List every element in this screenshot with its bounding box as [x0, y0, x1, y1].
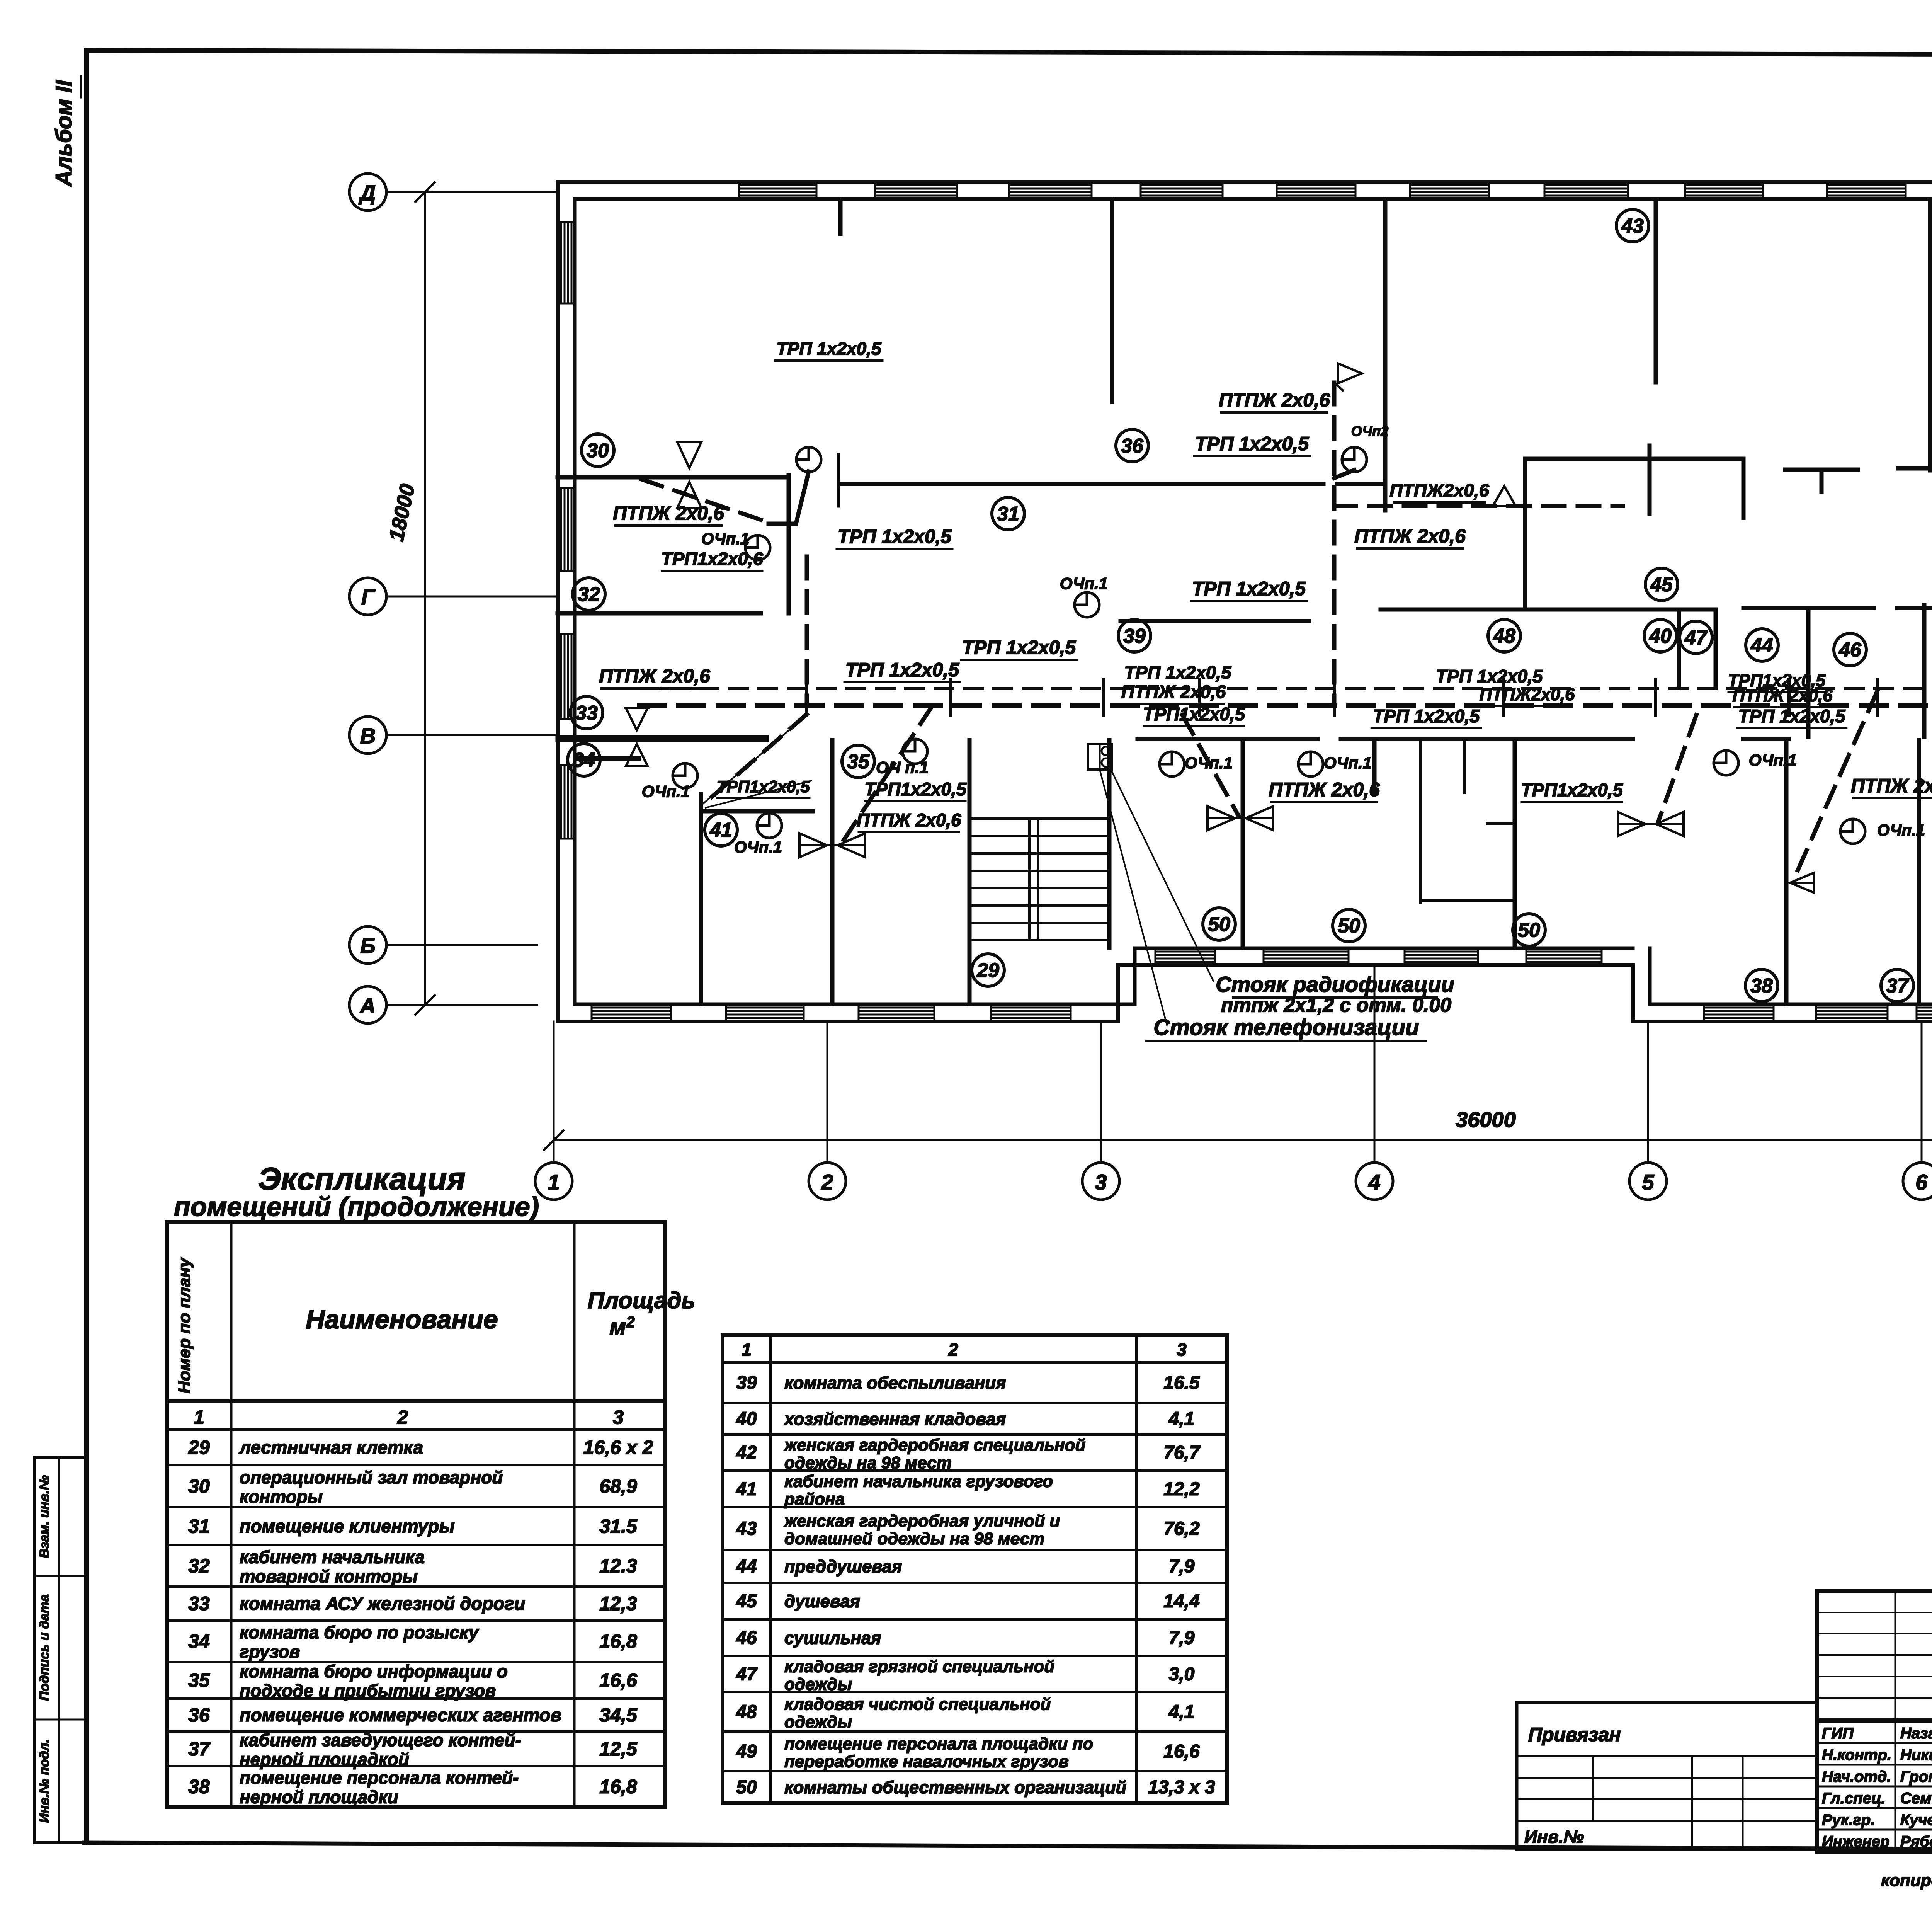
svg-text:16,8: 16,8 [599, 1631, 637, 1652]
svg-text:48: 48 [736, 1702, 757, 1722]
svg-text:ОЧп.1: ОЧп.1 [642, 782, 690, 800]
svg-text:помещений (продолжение): помещений (продолжение) [174, 1192, 539, 1222]
svg-text:грузов: грузов [240, 1642, 300, 1662]
svg-text:Н.контр.: Н.контр. [1822, 1747, 1891, 1764]
wire branch room34 [706, 714, 807, 802]
walls rooms 32-33-34 left [558, 613, 767, 737]
clock symbol [1342, 447, 1367, 472]
wire branch room50a valve [1182, 715, 1238, 815]
svg-text:ОЧп.1: ОЧп.1 [1749, 751, 1797, 769]
svg-text:ТРП1х2х0,5: ТРП1х2х0,5 [716, 778, 810, 796]
svg-text:Инв.№ подл.: Инв.№ подл. [37, 1739, 52, 1823]
wire label ТРП1х2х0,5 [1143, 704, 1245, 726]
wire label ТРП1х2х0,6 [661, 548, 764, 571]
wire label ТРП 1х2х0,5 [1194, 433, 1310, 456]
axis Г [349, 578, 558, 615]
svg-text:ПТПЖ 2х0,6: ПТПЖ 2х0,6 [599, 665, 711, 687]
wire label ТРП 1х2х0,5 [1372, 706, 1481, 728]
clock symbol [1075, 592, 1099, 617]
wire label ПТПЖ 2х0,6 [1851, 775, 1932, 798]
svg-text:2: 2 [821, 1170, 833, 1194]
wire label ТРП 1х2х0,5 [961, 637, 1077, 660]
wire label ТРП1х2х0,5 [1521, 780, 1623, 802]
svg-text:50: 50 [736, 1777, 757, 1798]
svg-text:ОЧ п.1: ОЧ п.1 [876, 758, 929, 776]
svg-text:кладовая грязной специальной: кладовая грязной специальной [784, 1657, 1054, 1676]
wire branch room35 valve [844, 706, 932, 840]
room circle 50 [1333, 909, 1365, 942]
corridor lower wall with rooms 34-41-35-50 [558, 737, 1932, 1004]
svg-text:36: 36 [1121, 435, 1144, 457]
svg-text:3: 3 [1177, 1340, 1187, 1360]
svg-text:37: 37 [1886, 975, 1909, 997]
svg-text:ТРП 1х2х0,5: ТРП 1х2х0,5 [1195, 433, 1310, 455]
riser symbol [1088, 744, 1112, 770]
svg-text:29: 29 [188, 1437, 210, 1458]
svg-text:Инженер: Инженер [1822, 1833, 1889, 1850]
svg-text:45: 45 [736, 1591, 757, 1612]
svg-text:49: 49 [736, 1742, 757, 1762]
svg-text:44: 44 [736, 1556, 757, 1577]
svg-text:Никитина: Никитина [1900, 1747, 1932, 1764]
svg-text:76,7: 76,7 [1163, 1443, 1201, 1463]
svg-text:12.3: 12.3 [599, 1555, 637, 1577]
axis 4 [1356, 965, 1393, 1200]
corridor wire TRP main [641, 687, 1932, 690]
building outer wall bottom with step [558, 948, 1932, 1021]
axis 6 [1903, 1021, 1932, 1200]
svg-text:товарной конторы: товарной конторы [240, 1566, 418, 1587]
windows top wall [739, 182, 1906, 199]
room circle 40 [1644, 620, 1677, 652]
svg-text:кладовая чистой специальной: кладовая чистой специальной [784, 1695, 1051, 1714]
svg-text:нерной площадкой: нерной площадкой [240, 1749, 409, 1769]
room circle 43 [1616, 209, 1649, 242]
room circle 48 [1488, 620, 1520, 652]
wire label ПТПЖ 2х0,6 [1732, 686, 1833, 707]
svg-text:комната обеспыливания: комната обеспыливания [784, 1373, 1006, 1393]
svg-text:ГИП: ГИП [1822, 1725, 1854, 1742]
room 39 top wall [1121, 619, 1309, 623]
svg-text:18000: 18000 [384, 482, 419, 543]
svg-text:района: района [784, 1490, 845, 1509]
svg-text:ПТПЖ 2х0,6: ПТПЖ 2х0,6 [857, 810, 961, 830]
wire branch to arrow room38 [1793, 691, 1877, 881]
room circle 37 [1881, 969, 1913, 1002]
svg-text:36000: 36000 [1456, 1107, 1516, 1132]
svg-text:Д: Д [359, 180, 376, 205]
wire label ПТПЖ2х0,6 [1480, 684, 1575, 706]
svg-text:Б: Б [360, 933, 376, 958]
svg-text:ПТПЖ 2х0,6: ПТПЖ 2х0,6 [1121, 681, 1226, 702]
wire label ТРП 1х2х0,5 [1737, 706, 1847, 728]
room circle 41 [705, 814, 737, 846]
svg-text:6: 6 [1915, 1170, 1928, 1194]
explication table 39-50 [723, 1335, 1227, 1803]
explication table 29-38 [167, 1222, 695, 1807]
svg-text:комнаты общественных организац: комнаты общественных организаций [784, 1777, 1126, 1797]
walls rooms 30-31-36 [558, 454, 1385, 613]
wire label ОЧп.1 [701, 529, 749, 548]
axis А [349, 986, 537, 1023]
privyazan box [1517, 1702, 1817, 1849]
valve symbol room50b [1618, 812, 1684, 836]
svg-text:32: 32 [578, 583, 600, 606]
svg-text:43: 43 [1621, 215, 1644, 237]
valve symbol room33 [577, 708, 648, 766]
clock symbol [1160, 752, 1184, 776]
svg-text:ТРП 1х2х0,5: ТРП 1х2х0,5 [1373, 706, 1480, 726]
clock symbol [745, 535, 770, 560]
svg-text:Наименование: Наименование [306, 1305, 498, 1334]
clock symbol [1298, 752, 1323, 776]
svg-text:Громов: Громов [1900, 1768, 1932, 1785]
wire label ТРП1х2х0,5 [864, 779, 967, 801]
svg-text:3: 3 [1095, 1170, 1107, 1194]
wire label ТРП 1х2х0,5 [1191, 578, 1307, 601]
svg-text:5: 5 [1642, 1170, 1654, 1194]
room circle 50 [1513, 914, 1545, 946]
svg-text:1: 1 [742, 1340, 752, 1360]
svg-text:ОЧп2: ОЧп2 [1351, 423, 1388, 439]
svg-text:47: 47 [736, 1664, 758, 1685]
room circle 44 [1746, 629, 1778, 661]
svg-text:16,6: 16,6 [1163, 1742, 1200, 1762]
svg-text:Семчукова: Семчукова [1900, 1790, 1932, 1807]
wire label ОЧ п.1 [876, 758, 929, 776]
axis 3 [1082, 1021, 1119, 1200]
left dimension line 18000 [384, 182, 435, 1015]
svg-text:ОЧп.1: ОЧп.1 [1324, 754, 1372, 772]
svg-text:1: 1 [548, 1170, 560, 1194]
svg-text:Площадь: Площадь [588, 1287, 696, 1313]
wire label ОЧп2 [1351, 423, 1388, 439]
svg-text:40: 40 [736, 1409, 757, 1429]
room circle 50 [1203, 908, 1235, 940]
clock symbol [796, 447, 821, 472]
svg-text:16,6: 16,6 [599, 1670, 638, 1691]
explication heading [174, 1161, 539, 1222]
svg-text:ПТПЖ2х0,6: ПТПЖ2х0,6 [1389, 480, 1489, 501]
svg-text:сушильная: сушильная [784, 1628, 881, 1648]
svg-text:Номер по плану: Номер по плану [175, 1257, 194, 1393]
clock symbol [673, 763, 697, 788]
wire label ТРП 1х2х0,5 [1124, 662, 1232, 683]
valve symbol room50a [1207, 806, 1273, 830]
svg-text:2: 2 [948, 1340, 958, 1360]
svg-text:кабинет заведующего контей-: кабинет заведующего контей- [240, 1730, 521, 1750]
svg-text:ПТПЖ2х0,6: ПТПЖ2х0,6 [1480, 684, 1575, 704]
room circle 45 [1645, 568, 1678, 601]
svg-text:м2: м2 [609, 1314, 634, 1339]
svg-text:В: В [360, 724, 376, 748]
svg-text:1: 1 [194, 1406, 204, 1428]
wire label ПТПЖ 2х0,6 [1219, 389, 1330, 412]
svg-text:хозяйственная кладовая: хозяйственная кладовая [784, 1409, 1006, 1429]
wire label ОЧп.1 [642, 782, 690, 800]
svg-text:3,0: 3,0 [1169, 1664, 1195, 1685]
windows bottom wall [592, 948, 1932, 1021]
svg-text:30: 30 [188, 1476, 210, 1497]
clock symbol [757, 813, 782, 838]
footer notes [1881, 1856, 1932, 1895]
room circle 38 [1745, 969, 1778, 1002]
wire label ОЧп.1 [1877, 821, 1925, 839]
valve symbol room30 [677, 442, 701, 508]
clock symbol [1840, 819, 1865, 844]
svg-text:Рук.гр.: Рук.гр. [1822, 1811, 1875, 1828]
svg-text:14,4: 14,4 [1163, 1591, 1199, 1612]
room circle 47 [1680, 621, 1712, 654]
svg-text:46: 46 [1838, 639, 1862, 661]
svg-text:ТРП 1х2х0,5: ТРП 1х2х0,5 [1124, 662, 1232, 683]
wire label ТРП1х2х0,5 [716, 778, 810, 798]
svg-text:ТРП 1х2х0,5: ТРП 1х2х0,5 [845, 659, 960, 681]
wire label ПТПЖ2х0,6 [1389, 480, 1489, 502]
wire vertical riser room36 [1332, 383, 1337, 703]
svg-text:ТРП 1х2х0,5: ТРП 1х2х0,5 [777, 339, 882, 359]
room circle 35 [842, 745, 874, 778]
svg-text:68,9: 68,9 [599, 1476, 637, 1497]
svg-text:38: 38 [1750, 975, 1773, 997]
svg-text:ТРП 1х2х0,5: ТРП 1х2х0,5 [838, 526, 952, 547]
svg-text:12,5: 12,5 [599, 1738, 638, 1760]
svg-text:Кучерявая: Кучерявая [1900, 1811, 1932, 1828]
left margin stamp boxes [35, 1457, 87, 1843]
room circle 29 [972, 954, 1004, 986]
wire label ПТПЖ 2х0,6 [1121, 681, 1226, 704]
wire riser vertical left [805, 557, 809, 703]
axis Б [349, 926, 537, 964]
wire junction ticks [807, 679, 1932, 716]
svg-text:помещение клиентуры: помещение клиентуры [240, 1516, 455, 1536]
svg-text:одежды на 98 мест: одежды на 98 мест [784, 1454, 952, 1473]
room circle 34 [568, 744, 600, 776]
svg-text:3: 3 [613, 1406, 624, 1428]
svg-text:переработке навалочных грузов: переработке навалочных грузов [784, 1752, 1069, 1771]
svg-text:комната бюро информации о: комната бюро информации о [240, 1662, 508, 1682]
wire label ПТПЖ 2х0,6 [857, 810, 961, 832]
svg-text:копировал:: копировал: [1881, 1871, 1932, 1890]
svg-text:ТРП 1х2х0,5: ТРП 1х2х0,5 [962, 637, 1077, 658]
svg-text:13,3 х 3: 13,3 х 3 [1148, 1777, 1215, 1798]
svg-text:35: 35 [847, 751, 870, 773]
wire label ПТПЖ 2х0,6 [613, 502, 724, 526]
svg-text:41: 41 [736, 1479, 757, 1500]
svg-text:ПТПЖ 2х0,6: ПТПЖ 2х0,6 [1219, 389, 1330, 411]
wire label ОЧп.1 [734, 838, 782, 856]
wire label ТРП 1х2х0,5 [845, 659, 960, 682]
svg-text:50: 50 [1208, 913, 1230, 936]
svg-text:Стояк радиофикации: Стояк радиофикации [1216, 972, 1454, 996]
svg-text:33: 33 [575, 702, 598, 724]
svg-text:31: 31 [997, 503, 1019, 525]
wire label ОЧп.1 [1749, 751, 1797, 769]
svg-text:12,3: 12,3 [599, 1593, 637, 1614]
flag triangle mid [1493, 486, 1516, 506]
room circle 33 [570, 696, 603, 729]
svg-text:38: 38 [188, 1776, 210, 1798]
svg-text:4,1: 4,1 [1168, 1702, 1195, 1722]
wire label ОЧп.1 [1060, 574, 1108, 592]
svg-text:Назарова: Назарова [1900, 1725, 1932, 1742]
svg-text:Рябова: Рябова [1900, 1833, 1932, 1850]
svg-text:ПТПЖ 2х0,6: ПТПЖ 2х0,6 [1354, 525, 1466, 547]
interior walls upper zone [840, 199, 1930, 511]
svg-text:43: 43 [736, 1519, 757, 1539]
svg-text:37: 37 [188, 1738, 211, 1760]
svg-text:Инв.№: Инв.№ [1524, 1827, 1584, 1847]
wire label ПТПЖ 2х0,6 [1354, 525, 1466, 548]
svg-text:7,9: 7,9 [1169, 1628, 1195, 1648]
svg-text:2: 2 [397, 1406, 408, 1428]
svg-text:ТРП 1х2х0,5: ТРП 1х2х0,5 [1436, 666, 1543, 686]
svg-text:16,8: 16,8 [599, 1776, 637, 1798]
axis 2 [809, 1021, 846, 1200]
wire label ТРП 1х2х0,5 [837, 526, 952, 549]
svg-text:41: 41 [709, 819, 732, 841]
svg-text:31.5: 31.5 [599, 1515, 638, 1537]
svg-text:одежды: одежды [784, 1713, 852, 1731]
riser leader lines [1100, 770, 1213, 1025]
svg-text:ТРП1х2х0,6: ТРП1х2х0,6 [661, 548, 764, 569]
svg-text:Подпись и дата: Подпись и дата [37, 1594, 52, 1701]
svg-text:Гл.спец.: Гл.спец. [1822, 1790, 1886, 1807]
svg-text:ТРП 1х2х0,5: ТРП 1х2х0,5 [1738, 706, 1846, 726]
svg-text:45: 45 [1650, 574, 1673, 596]
room circle 36 [1116, 429, 1148, 462]
title block grid [1817, 1591, 1932, 1852]
svg-text:16,6 х 2: 16,6 х 2 [583, 1437, 653, 1458]
room circle 46 [1834, 633, 1866, 666]
title block signature rows [1822, 1725, 1932, 1850]
stair block left [969, 740, 1109, 948]
svg-text:42: 42 [736, 1443, 757, 1463]
svg-text:44: 44 [1750, 634, 1773, 657]
riser note telephone [1146, 1015, 1426, 1041]
svg-text:женская гардеробная специально: женская гардеробная специальной [784, 1436, 1086, 1455]
wire label ТРП 1х2х0,5 [1436, 666, 1543, 686]
svg-text:ТРП 1х2х0,5: ТРП 1х2х0,5 [1192, 578, 1306, 599]
svg-text:помещение коммерческих агентов: помещение коммерческих агентов [240, 1705, 561, 1725]
walls rooms 45-47-48 cluster [1381, 446, 1932, 737]
svg-text:48: 48 [1493, 625, 1515, 647]
svg-text:ПТПЖ 2х0,6: ПТПЖ 2х0,6 [1269, 779, 1380, 800]
clock symbol [1714, 751, 1738, 775]
wire branch room30 [641, 472, 809, 524]
axis 1 [535, 1021, 572, 1200]
svg-text:76,2: 76,2 [1163, 1519, 1200, 1539]
svg-text:46: 46 [736, 1628, 757, 1648]
svg-text:39: 39 [736, 1373, 757, 1393]
svg-text:ОЧп.1: ОЧп.1 [1185, 754, 1233, 772]
svg-text:лестничная клетка: лестничная клетка [239, 1437, 423, 1457]
room circle 30 [582, 434, 614, 466]
svg-text:29: 29 [976, 959, 999, 982]
svg-text:Стояк телефонизации: Стояк телефонизации [1153, 1015, 1419, 1040]
wire horizontal room43 [1334, 504, 1623, 508]
wire label ТРП1х2х0,5 [1728, 671, 1826, 692]
svg-text:50: 50 [1518, 919, 1540, 941]
wire label ТРП 1х2х0,5 [776, 339, 883, 361]
svg-text:31: 31 [188, 1515, 210, 1537]
svg-text:ПТПЖ 2х0,6: ПТПЖ 2х0,6 [613, 502, 724, 524]
svg-text:Взам. инв.№: Взам. инв.№ [37, 1475, 52, 1558]
svg-text:30: 30 [587, 439, 609, 462]
wire label ОЧп.1 [1185, 754, 1233, 772]
svg-text:помещение персонала контей-: помещение персонала контей- [240, 1768, 519, 1788]
svg-text:операционный зал товарной: операционный зал товарной [240, 1468, 503, 1488]
svg-text:4,1: 4,1 [1168, 1409, 1195, 1429]
svg-text:домашней одежды на 98 мест: домашней одежды на 98 мест [784, 1529, 1044, 1548]
svg-text:35: 35 [188, 1670, 210, 1691]
svg-text:16.5: 16.5 [1163, 1373, 1200, 1393]
svg-text:ОЧп.1: ОЧп.1 [1060, 574, 1108, 592]
WC partitions middle [1420, 740, 1515, 903]
svg-text:кабинет начальника: кабинет начальника [240, 1547, 425, 1567]
svg-text:12,2: 12,2 [1163, 1479, 1200, 1500]
svg-text:ОЧп.1: ОЧп.1 [701, 529, 749, 548]
diag solid leaders left [701, 715, 811, 808]
svg-text:36: 36 [188, 1704, 210, 1726]
svg-text:ТРП1х2х0,5: ТРП1х2х0,5 [1143, 704, 1245, 724]
svg-text:женская гардеробная уличной и: женская гардеробная уличной и [784, 1512, 1060, 1531]
clock symbol [903, 739, 927, 764]
axis В [349, 717, 558, 754]
svg-text:ТРП1х2х0,5: ТРП1х2х0,5 [864, 779, 967, 799]
corridor wire PTPZh main [639, 703, 1932, 708]
svg-text:Альбом II: Альбом II [51, 80, 77, 187]
svg-text:Г: Г [361, 585, 376, 609]
svg-text:ТРП1х2х0,5: ТРП1х2х0,5 [1521, 780, 1623, 800]
flag right top [1334, 363, 1362, 390]
svg-text:34: 34 [188, 1631, 210, 1652]
svg-text:7,9: 7,9 [1169, 1556, 1195, 1577]
svg-text:ПТПЖ 2х0,6: ПТПЖ 2х0,6 [1851, 775, 1932, 797]
wire label ОЧп.1 [1324, 754, 1372, 772]
wire label ПТПЖ 2х0,6 [1269, 779, 1380, 802]
windows left wall [558, 222, 575, 839]
room circle 32 [573, 578, 605, 610]
svg-text:ОЧп.1: ОЧп.1 [734, 838, 782, 856]
svg-text:33: 33 [188, 1593, 210, 1614]
svg-text:32: 32 [188, 1555, 210, 1577]
svg-text:50: 50 [1338, 915, 1360, 937]
svg-text:конторы: конторы [240, 1487, 323, 1507]
svg-text:Нач.отд.: Нач.отд. [1822, 1768, 1891, 1785]
svg-text:птпж 2х1,2 с отм. 0.00: птпж 2х1,2 с отм. 0.00 [1221, 994, 1451, 1016]
svg-text:нерной площадки: нерной площадки [240, 1787, 398, 1807]
solid thick jog near clock36 [1334, 470, 1354, 478]
room circle 31 [992, 497, 1024, 530]
album label [51, 76, 81, 187]
svg-text:ПТПЖ 2х0,6: ПТПЖ 2х0,6 [1732, 686, 1833, 705]
svg-text:34,5: 34,5 [599, 1704, 638, 1726]
svg-text:комната АСУ железной дороги: комната АСУ железной дороги [240, 1593, 525, 1614]
svg-text:ОЧп.1: ОЧп.1 [1877, 821, 1925, 839]
svg-text:47: 47 [1684, 627, 1708, 649]
valve symbol room41 [799, 833, 865, 857]
bottom dimension line 36000 [544, 1107, 1932, 1150]
room circle 39 [1118, 620, 1151, 652]
svg-text:Привязан: Привязан [1528, 1724, 1621, 1745]
axis Д [349, 174, 558, 211]
svg-text:А: А [359, 993, 376, 1018]
wire label ПТПЖ 2х0,6 [599, 665, 711, 688]
svg-text:подходе и прибытии грузов: подходе и прибытии грузов [240, 1681, 496, 1701]
svg-text:34: 34 [573, 749, 595, 771]
svg-text:душевая: душевая [784, 1592, 860, 1611]
